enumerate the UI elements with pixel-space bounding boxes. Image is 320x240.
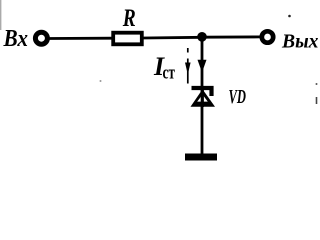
current direction arrowhead on wire [198, 60, 207, 73]
svg-text:VD: VD [229, 86, 247, 108]
zener diode VD: anode triangle (outline) [191, 89, 216, 107]
speckle center faint dot [100, 80, 102, 82]
speckle right edge lower (dash) [316, 97, 318, 104]
wire: resistor to node [144, 36, 203, 40]
zener diode VD: cathode bar with bent end [192, 88, 212, 96]
svg-text:Вх: Вх [3, 26, 28, 52]
wire: vertical branch node to ground [201, 37, 204, 154]
svg-text:R: R [122, 5, 136, 32]
svg-text:ст: ст [163, 63, 176, 84]
speckle top right [288, 15, 291, 18]
speckle right edge upper [316, 83, 318, 85]
current arrow Iст (thin arrow beside wire) [187, 48, 189, 53]
terminal Вх (input, open circle) [35, 32, 47, 44]
wire: node to output terminal [202, 36, 261, 39]
terminal Вых (output, open circle) [262, 31, 273, 42]
scan artifact left edge line [0, 0, 2, 30]
ground bar [185, 154, 217, 161]
svg-text:Вых: Вых [281, 31, 318, 53]
resistor R [113, 33, 142, 45]
node: junction dot [197, 32, 207, 42]
wire: input terminal to resistor [49, 37, 113, 40]
